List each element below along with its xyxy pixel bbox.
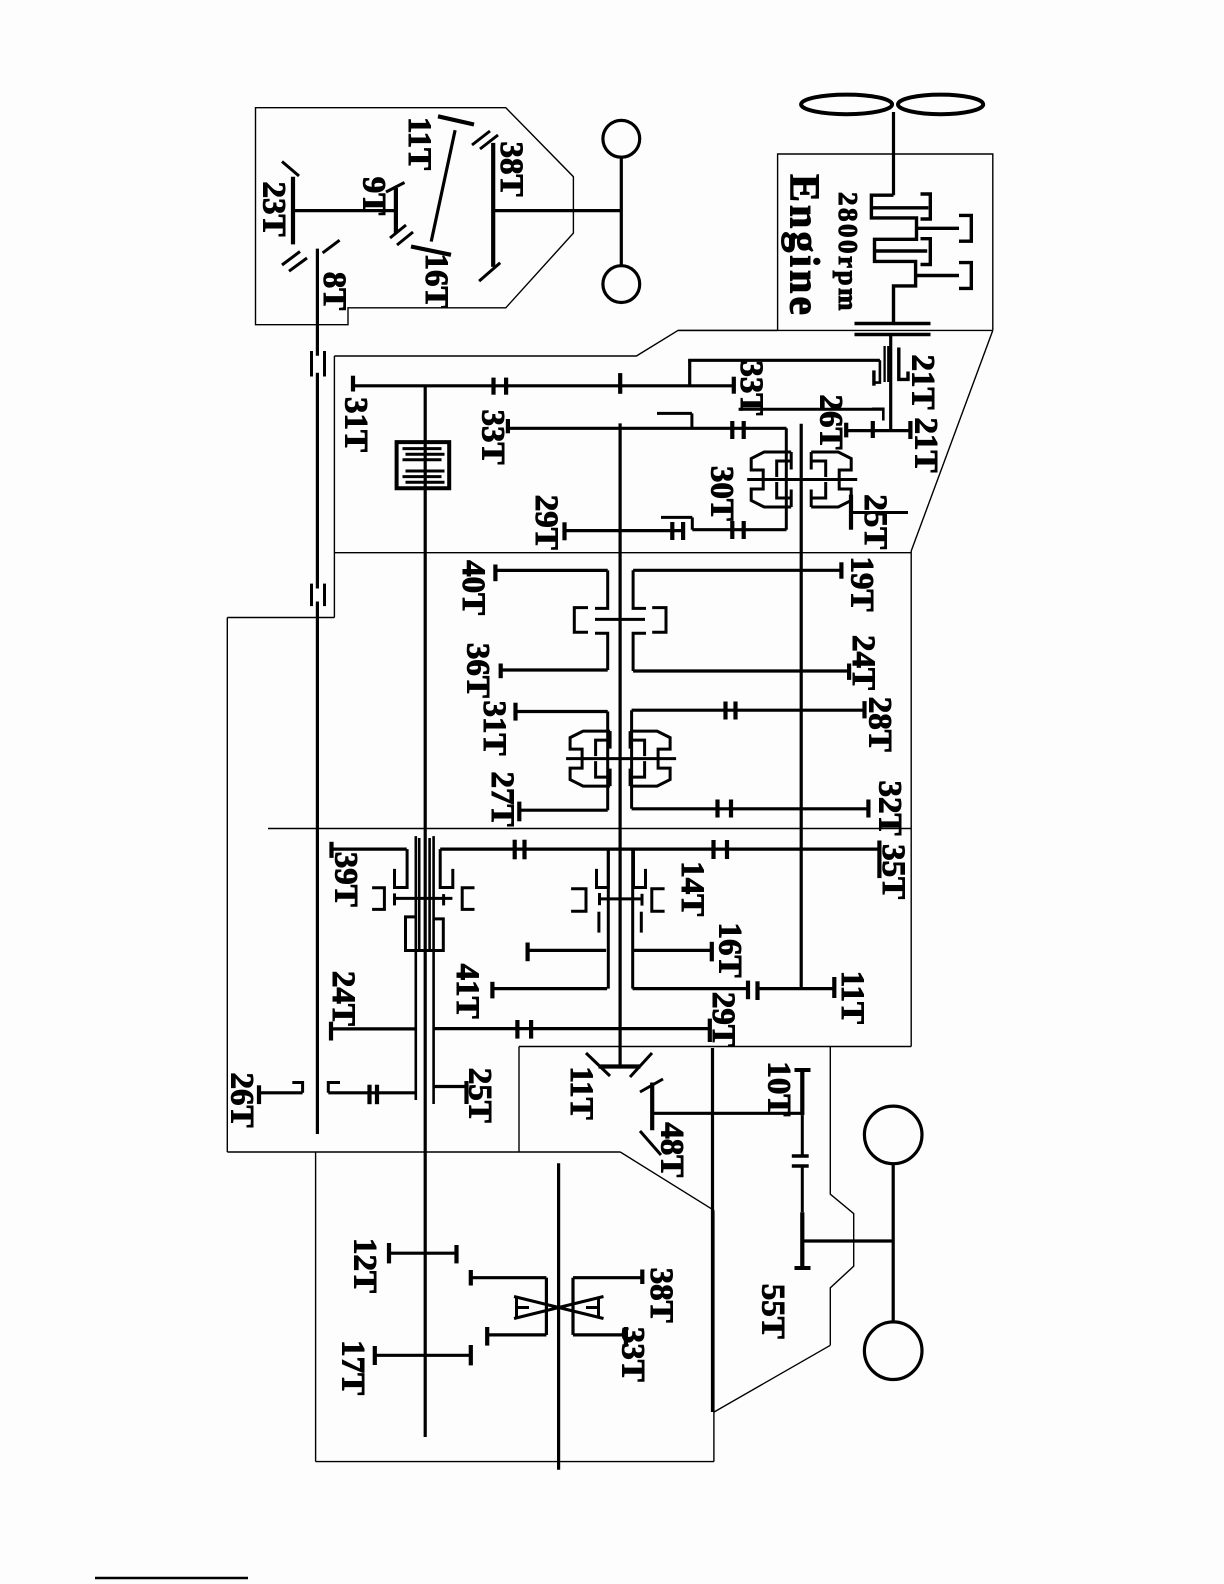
gear 26T lower bar — [257, 1085, 261, 1104]
wire: 24T lower rail — [331, 1027, 415, 1030]
housing: right edge — [910, 551, 912, 1047]
housing: rear axle chamber jogged wall — [830, 1047, 853, 1346]
mesh pair bar m — [515, 1020, 519, 1039]
diff right frame vertical — [571, 1278, 574, 1335]
synchro cluster countershaft left claw inner top — [777, 461, 792, 477]
wire: rail to mesh pair — [633, 987, 749, 990]
gear bar at 527 — [525, 943, 529, 962]
svg-text:9T: 9T — [356, 177, 392, 216]
housing: range box bottom edge — [316, 1461, 714, 1463]
gear 21T bar right — [908, 421, 912, 439]
wire: left cage vertical — [606, 712, 609, 811]
svg-text:29T: 29T — [528, 495, 564, 550]
flywheel line lower — [855, 333, 931, 337]
wire: 23T-9T axle — [293, 209, 396, 212]
svg-text:26T: 26T — [224, 1072, 260, 1127]
housing: gearbox top edge with 45-deg corner — [334, 330, 777, 356]
mesh pair bar l — [755, 981, 759, 1000]
front wheel B — [603, 266, 640, 303]
housing: step down at x=519 — [518, 1047, 520, 1153]
synchro cluster countershaft right claw inner bottom — [811, 482, 826, 498]
mesh pair bar q — [723, 702, 727, 720]
mesh pair bar f — [681, 522, 685, 540]
wire: front axle drive rail — [493, 209, 621, 212]
svg-text:32T: 32T — [872, 780, 908, 835]
wire: stub y517 — [661, 516, 692, 519]
synchro cluster mainshaft 2nd left claw inner bottom — [596, 761, 611, 777]
svg-text:31T: 31T — [476, 700, 512, 755]
svg-text:41T: 41T — [449, 964, 485, 1019]
svg-text:11T: 11T — [563, 1066, 599, 1119]
cluster-D fork bracket left — [571, 889, 586, 912]
clutch plate fin — [403, 475, 442, 478]
cluster-D sleeve tooth right — [640, 912, 643, 933]
PTO sleeve outer cage — [406, 917, 444, 951]
wire: 26T hook — [292, 1083, 302, 1093]
wire: diff right top arm — [573, 1276, 642, 1279]
wire: 40T rail — [495, 569, 607, 572]
wire: cluster lower rail — [692, 528, 786, 531]
PTO cage U-hook right — [440, 849, 453, 887]
gear 55T bottom crossbar — [795, 1266, 811, 1270]
mesh pair bar i — [513, 840, 517, 860]
mainshaft sleeve line left — [607, 849, 610, 989]
input clutch tall bar a — [883, 346, 885, 382]
mesh pair bar r — [733, 702, 737, 720]
svg-text:24T: 24T — [325, 971, 361, 1026]
wire: 35T long rail — [440, 847, 879, 850]
cage bracket top-right — [633, 570, 646, 608]
housing: range box left edge — [315, 1152, 317, 1462]
housing: upper left edge — [333, 356, 335, 618]
wire: 24T rail — [633, 669, 849, 672]
cluster-D fork shoe left — [598, 893, 601, 905]
PTO shift fork line — [395, 897, 453, 900]
cluster-D cage U-hook right — [634, 849, 646, 887]
svg-text:33T: 33T — [614, 1327, 650, 1382]
PTO sleeve line b1 — [428, 838, 431, 951]
housing: internal wall y=828 — [268, 828, 911, 830]
input shaft — [889, 335, 892, 431]
bevel tick 8T top — [323, 240, 340, 253]
mesh pair bar h — [742, 521, 746, 539]
wire: rail1 y386 — [353, 384, 734, 387]
gear 33T bar lower — [624, 1327, 628, 1346]
piston 2 bracket — [959, 215, 971, 241]
bevel tick 38T bottom — [479, 263, 500, 281]
synchro cluster mainshaft 2nd right claw inner top — [630, 740, 645, 756]
wire: top rail to input — [688, 359, 880, 362]
PTO sleeve line a2 — [418, 838, 421, 951]
front wheel A — [603, 120, 640, 157]
diff cross X line a — [514, 1297, 604, 1319]
PTO fork bracket right — [462, 888, 474, 910]
synchro cluster countershaft right claw edge bottom — [810, 490, 813, 508]
svg-text:21T: 21T — [908, 417, 944, 472]
wire: 32T rail — [632, 807, 869, 810]
bracket above 21T — [872, 409, 883, 421]
mesh pair bar u — [711, 840, 715, 859]
countershaft — [800, 424, 803, 989]
gear 33T bar on rail2 — [506, 419, 510, 433]
gear 11T crossbar — [438, 116, 474, 124]
rear wheel A — [864, 1106, 922, 1164]
synchro cluster countershaft right claw inner top — [811, 461, 826, 477]
svg-text:11T: 11T — [834, 971, 870, 1024]
bevel mesh hatch 9T-16T b — [397, 232, 413, 245]
gear 16T bar — [710, 942, 714, 962]
svg-text:27T: 27T — [484, 771, 520, 826]
mesh pair bar g — [730, 521, 734, 539]
inclined bevel shaft 11T-16T — [431, 130, 455, 241]
PTO fork shoe right — [442, 894, 445, 905]
gear 17T bar right — [469, 1345, 473, 1365]
svg-text:11T: 11T — [401, 117, 437, 170]
cage bracket bottom-left — [595, 633, 608, 670]
housing: right diagonal below engine — [911, 330, 993, 551]
wire: rail y409 — [739, 408, 884, 411]
svg-text:8T: 8T — [316, 272, 352, 311]
dog clutch bracket right of shaft — [328, 1083, 340, 1093]
mesh pair bar d — [742, 421, 746, 439]
svg-text:26T: 26T — [813, 394, 849, 449]
synchro cluster mainshaft 2nd right claw inner bottom — [630, 761, 645, 777]
mesh pair bar n — [529, 1020, 533, 1039]
mesh pair bar b — [504, 378, 508, 395]
wire: 39T rail — [332, 847, 407, 850]
diff small bracket left arm — [517, 1306, 530, 1309]
housing: lower diagonal to range box — [620, 1152, 714, 1210]
mesh pair bar s — [715, 800, 719, 818]
bevel tick 48T lower — [640, 1131, 661, 1155]
bevel mesh hatch 9T-16T a — [390, 225, 406, 238]
synchro cluster mainshaft 2nd left claw edge top — [609, 731, 612, 749]
wire: TC to crankshaft — [892, 112, 895, 195]
housing: rear axle chamber diagonal — [714, 1345, 830, 1412]
PTO fork shoe left — [393, 893, 396, 905]
crank web line 2 — [875, 249, 928, 252]
cage bracket top-left — [595, 570, 608, 608]
clutch plate fin — [403, 447, 442, 450]
diff small bracket left bar — [515, 1297, 518, 1318]
wire: 41T-mesh rail upper left — [528, 949, 607, 952]
gear 28T bar — [862, 701, 866, 718]
svg-text:40T: 40T — [455, 560, 491, 615]
wire: stub y413 — [657, 412, 692, 415]
wire: clutch to 55T — [801, 1166, 804, 1212]
svg-text:12T: 12T — [347, 1238, 383, 1293]
input clutch right L bar — [899, 348, 908, 380]
wire: 27T rail — [519, 809, 607, 812]
housing: top boundary under engine — [678, 329, 993, 331]
conrod to piston 2 — [917, 227, 960, 230]
gear 55T bar — [800, 1212, 804, 1268]
gear 33T bar on shaft line — [618, 373, 622, 394]
mesh pair bar o — [367, 1085, 371, 1105]
PTO shaft full length — [424, 386, 427, 1437]
wire: 29T lower rail — [433, 1027, 710, 1030]
synchro cluster mainshaft 2nd shift fork line — [566, 757, 676, 760]
housing: left step at y=617 — [227, 617, 334, 619]
gear 23T bar — [291, 177, 295, 245]
flywheel line upper — [855, 322, 931, 326]
gear 35T bar — [877, 841, 881, 879]
wire: 25T rail — [851, 511, 908, 514]
wire: 29T rail — [565, 529, 684, 532]
shaft 8T upper segment — [316, 249, 319, 356]
gear 26T bar — [844, 423, 848, 438]
PTO fork bracket left — [372, 888, 384, 910]
diff left top end bar — [469, 1270, 473, 1286]
rear axle shaft — [892, 1164, 895, 1322]
inner bracket left — [574, 608, 588, 633]
mesh pair bar t — [729, 800, 733, 818]
cage bracket bottom-right — [633, 633, 646, 671]
mesh pair bar e — [670, 522, 674, 540]
svg-text:25T: 25T — [462, 1068, 498, 1123]
housing: internal wall y=553 — [334, 552, 911, 554]
svg-text:16T: 16T — [418, 253, 454, 308]
input clutch bracket — [874, 360, 880, 382]
gear 24T lower bar — [329, 1022, 333, 1041]
dog clutch bar upper — [792, 1154, 809, 1157]
gear 33T bar right — [732, 377, 736, 394]
gear 40T bar — [493, 565, 497, 582]
gear 29T bar — [562, 522, 566, 540]
synchro cluster countershaft right claw edge top — [810, 452, 813, 470]
bevel mesh hatch 23T-8T b — [289, 258, 307, 271]
synchro cluster countershaft left claw edge bottom — [790, 490, 793, 508]
wire: 17T rail — [375, 1354, 471, 1357]
svg-text:38T: 38T — [643, 1268, 679, 1323]
svg-text:21T: 21T — [905, 354, 941, 409]
bevel mesh hatch 23T-8T a — [282, 252, 300, 266]
wire: cage vertical x786 — [785, 428, 788, 529]
gear 31T bar (2nd) — [513, 703, 517, 721]
coupling lower right bar — [323, 584, 326, 607]
piston 4 bracket — [959, 263, 971, 289]
wire: 31T rail — [516, 710, 608, 713]
gear 41T bar — [490, 982, 494, 999]
wire: corner top rail — [688, 360, 691, 386]
svg-text:39T: 39T — [328, 852, 364, 907]
clutch plate fin — [406, 470, 445, 473]
housing: front bevel transfer box outline — [256, 108, 574, 325]
synchro cluster mainshaft 2nd right claw outline — [630, 731, 670, 786]
gear 29T lower bar — [708, 1019, 712, 1042]
svg-text:31T: 31T — [338, 397, 374, 452]
gear 38T bar lower — [640, 1270, 644, 1285]
housing: engine box — [778, 154, 993, 330]
svg-text:Engine: Engine — [780, 174, 826, 318]
bevel tick 23T top — [282, 162, 299, 177]
inner bracket right — [652, 608, 666, 633]
mesh pair bar j — [522, 840, 526, 860]
coupling upper right bar — [323, 351, 326, 377]
housing: main bottom edge — [227, 1151, 620, 1153]
svg-text:38T: 38T — [493, 141, 529, 196]
bevel tick 9T top — [386, 183, 405, 193]
gear 25T bar — [849, 495, 853, 530]
input clutch tall bar b — [887, 346, 889, 382]
diff cross X line b — [514, 1297, 604, 1319]
mesh pair bar c — [730, 421, 734, 439]
svg-text:29T: 29T — [705, 992, 741, 1047]
mainshaft sleeve line right — [631, 849, 634, 989]
wire: 10T to clutch — [801, 1115, 804, 1156]
bevel tick 11T right — [630, 1053, 652, 1077]
svg-text:23T: 23T — [256, 181, 292, 236]
main shaft — [618, 423, 621, 1066]
wire: diff left bottom arm — [487, 1333, 546, 1336]
wire: 36T rail — [501, 668, 608, 671]
wire: corner to rail y530 — [691, 517, 694, 529]
gear 11T bar — [832, 977, 836, 998]
torque converter ellipse right — [898, 95, 983, 115]
crank web line 1 — [871, 206, 928, 209]
clutch plate fin — [406, 481, 445, 484]
wire: rail2 y428 — [508, 427, 787, 430]
gear 36T bar — [499, 664, 503, 679]
crankshaft zigzag — [871, 195, 916, 323]
PTO sleeve line b2 — [432, 836, 435, 1104]
wire: 41T rail — [492, 987, 607, 990]
diff small bracket right bar — [597, 1297, 600, 1318]
cluster-D shift fork line — [599, 897, 643, 900]
gear 12T bar left — [387, 1243, 391, 1263]
mesh pair bar p — [375, 1085, 379, 1105]
svg-text:55T: 55T — [755, 1284, 791, 1339]
wire: right cage vertical — [630, 710, 633, 809]
wire: dog clutch rail y1093 — [328, 1091, 414, 1094]
clutch plate fin — [406, 453, 445, 456]
synchro cluster mainshaft 2nd right claw edge bottom — [629, 769, 632, 787]
differential input shaft — [557, 1163, 560, 1469]
housing: range box right edge — [713, 1210, 715, 1461]
gear 10T bar — [800, 1070, 804, 1115]
diff small bracket right arm — [586, 1306, 599, 1309]
cluster-D fork shoe right — [641, 894, 644, 906]
gear 39T bar — [329, 842, 333, 858]
mesh pair bar a — [491, 378, 495, 395]
synchro cluster mainshaft 2nd right claw edge top — [629, 731, 632, 749]
wire: 16T rail — [633, 949, 712, 952]
shaft 8T mid segment — [316, 373, 319, 589]
piston 1 bracket — [921, 194, 931, 219]
scan artifact line bottom-left — [95, 1577, 248, 1580]
gear 31T bar — [351, 376, 355, 392]
gear 21T bar left — [871, 421, 875, 438]
gear 12T bar right — [454, 1245, 458, 1263]
front axle shaft — [620, 157, 623, 266]
torque converter ellipse left — [801, 95, 892, 115]
housing: left edge — [226, 618, 228, 1153]
cluster-D fork bracket right — [652, 889, 665, 912]
gear 16T crossbar — [411, 247, 451, 255]
wire: 12T rail — [389, 1252, 457, 1255]
shaft 8T lower segment — [316, 602, 319, 1135]
gear 11T bevel crossbar — [599, 1064, 641, 1068]
cluster-D cage U-hook left — [597, 849, 609, 887]
gear 25T lower bar — [464, 1081, 468, 1104]
svg-text:14T: 14T — [674, 861, 710, 916]
synchro cluster countershaft shift fork line — [747, 478, 857, 481]
svg-text:16T: 16T — [712, 922, 748, 977]
synchro cluster mainshaft 2nd left claw outline — [570, 731, 610, 786]
bevel tick 11T left — [586, 1053, 610, 1076]
gear 17T bar left — [373, 1346, 377, 1365]
mesh pair bar k — [746, 981, 750, 1000]
gear 9T bar — [394, 188, 398, 233]
wire: 19T rail — [633, 569, 841, 572]
svg-text:30T: 30T — [704, 466, 740, 521]
PTO cage U-hook left — [395, 849, 408, 887]
input clutch inner bar — [872, 370, 875, 385]
synchro cluster countershaft left claw outline — [751, 452, 791, 507]
wire: corner to rail2 — [690, 413, 693, 428]
bevel mesh hatch 11T-38T a — [472, 131, 490, 145]
synchro cluster countershaft right claw outline — [811, 452, 851, 507]
coupling upper left bar — [310, 351, 313, 377]
svg-text:36T: 36T — [459, 643, 495, 698]
clutch plate fin — [403, 458, 442, 461]
multiplate clutch box — [397, 442, 450, 488]
wire: 11T rail — [758, 987, 835, 990]
PTO sleeve line a1 — [414, 836, 417, 1100]
svg-text:35T: 35T — [875, 844, 911, 899]
svg-text:24T: 24T — [845, 635, 881, 690]
synchro cluster mainshaft 2nd left claw inner top — [596, 740, 611, 756]
conrod to piston 4 — [916, 274, 959, 277]
wire: 55T to rear axle — [802, 1239, 893, 1242]
gear 27T bar — [517, 802, 521, 822]
wire: diff right bottom arm — [573, 1333, 626, 1336]
wire: 28T rail — [632, 709, 865, 712]
housing: mid-right bottom edge — [519, 1046, 911, 1048]
svg-text:33T: 33T — [733, 360, 769, 415]
coupling lower left bar — [310, 584, 313, 607]
bevel tick 48T upper — [640, 1079, 663, 1092]
gear 32T bar — [866, 800, 870, 818]
cluster-D sleeve tooth left — [597, 912, 600, 933]
wire: 25T rail right — [433, 1085, 467, 1088]
gear 24T bar — [847, 664, 851, 680]
piston 3 bracket — [921, 239, 931, 265]
svg-text:33T: 33T — [475, 409, 511, 464]
svg-text:28T: 28T — [862, 697, 898, 752]
dog clutch bar lower — [792, 1164, 809, 1167]
diff left bottom end bar — [485, 1327, 489, 1346]
svg-text:48T: 48T — [654, 1122, 690, 1177]
rear output shaft — [711, 1048, 714, 1412]
svg-text:17T: 17T — [335, 1340, 371, 1395]
synchro cluster mainshaft 2nd left claw edge bottom — [609, 769, 612, 787]
wire: 21T mesh rail — [846, 429, 910, 432]
gear 19T bar — [839, 562, 843, 578]
gear 10T top crossbar — [795, 1068, 811, 1072]
gear 38T bar — [491, 143, 495, 267]
wire: 48T-10T rail — [652, 1112, 802, 1115]
gear 48T bar — [650, 1083, 654, 1131]
mesh pair bar v — [725, 840, 729, 859]
rear wheel B — [864, 1322, 922, 1380]
shift fork line mid cluster — [595, 618, 645, 621]
wire: diff left top arm — [471, 1276, 547, 1279]
svg-text:10T: 10T — [761, 1061, 797, 1116]
synchro cluster countershaft left claw edge top — [790, 452, 793, 470]
wire: 26T stem — [259, 1091, 303, 1094]
diff left frame vertical — [545, 1278, 548, 1335]
